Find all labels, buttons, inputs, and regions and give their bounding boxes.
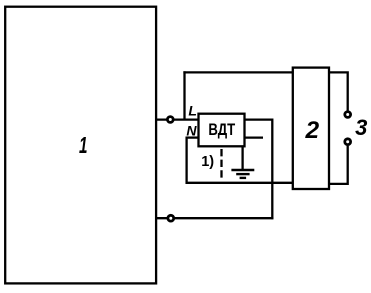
terminal node (upper) on block 1: [167, 117, 173, 123]
dashed optional link 1): [220, 149, 222, 178]
wire: VDT output to right riser: [245, 118, 273, 120]
block 2 (load): [293, 68, 329, 189]
wire: top bus to block 2: [183, 71, 292, 73]
svg-text:2: 2: [304, 117, 319, 144]
svg-text:3: 3: [355, 115, 367, 140]
svg-text:ВДТ: ВДТ: [208, 121, 235, 139]
wire N: stub into VDT input: [187, 136, 199, 138]
VDT box (residual current device under test): [199, 114, 245, 147]
switch 3 contact (upper): [345, 112, 351, 118]
wire: riser from L node up to top bus: [183, 71, 185, 119]
svg-text:N: N: [186, 122, 197, 138]
svg-text:1): 1): [201, 154, 214, 170]
wire L: block 1 to VDT input: [156, 118, 199, 120]
ground lead: [241, 147, 243, 169]
block 1 (test source): [5, 7, 156, 284]
wire: VDT right-side stub: [245, 136, 263, 138]
wire: bottom return to block 1 lower terminal: [156, 217, 273, 219]
svg-text:1: 1: [79, 132, 88, 158]
switch 3 contact (lower): [345, 139, 351, 145]
ground bar 1: [231, 169, 254, 171]
ground bar 2: [236, 173, 249, 175]
ground bar 3: [240, 177, 247, 179]
wire: right riser down: [271, 119, 273, 220]
svg-text:L: L: [188, 103, 197, 119]
terminal node (lower) on block 1: [168, 215, 174, 221]
wire: block 2 top to switch: [329, 72, 348, 110]
wire N: bottom run to block 2: [186, 182, 293, 184]
wire: switch to block 2 bottom: [329, 146, 348, 184]
wire N: drop from N stub: [185, 137, 187, 184]
